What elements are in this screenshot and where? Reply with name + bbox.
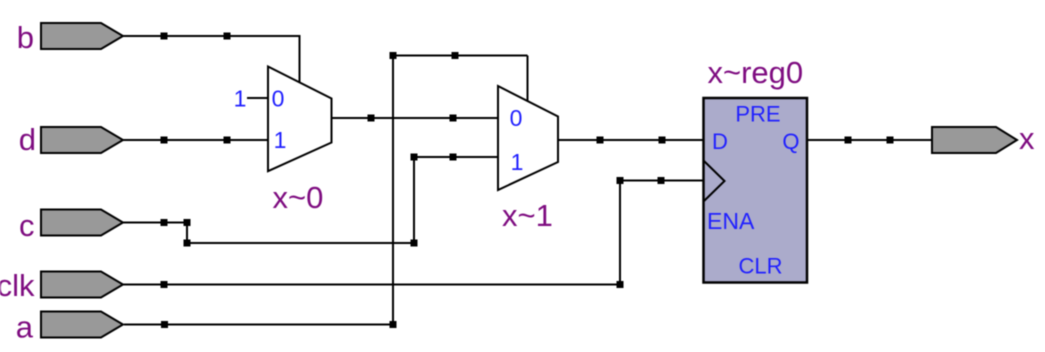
register x~reg0 body (704, 98, 808, 283)
junction on a wire (161, 321, 168, 328)
input pin c (41, 210, 123, 236)
junction on c to mux x~1 (450, 154, 457, 161)
junction c corner up (411, 154, 418, 161)
junction on D wire 2 (659, 137, 666, 144)
svg-text:1: 1 (234, 86, 247, 112)
junction on d wire 2 (224, 137, 231, 144)
wire a vertical up (392, 56, 394, 325)
junction a corner top (390, 52, 397, 59)
svg-text:clk: clk (0, 268, 35, 303)
svg-text:0: 0 (272, 86, 285, 112)
wire a select horizontal (393, 55, 528, 57)
junction c corner top (184, 219, 191, 226)
junction a corner bottom (390, 321, 397, 328)
output pin x (932, 127, 1017, 153)
junction c corner right (411, 240, 418, 247)
junction on b wire 1 (161, 33, 168, 40)
input pin a (41, 312, 123, 338)
mux x~0 body (268, 67, 332, 172)
svg-text:d: d (19, 122, 36, 157)
wire clk vertical up (619, 181, 621, 285)
junction on d wire 1 (161, 137, 168, 144)
junction on a select (452, 52, 459, 59)
wire c to mux x~1 input 1 (414, 156, 498, 158)
wire constant stub to mux x~0 input 0 (247, 97, 268, 99)
svg-text:x~1: x~1 (502, 198, 553, 233)
junction on Q wire 2 (887, 137, 894, 144)
svg-text:x: x (1019, 121, 1035, 156)
svg-text:b: b (17, 20, 34, 55)
svg-text:x~reg0: x~reg0 (708, 55, 804, 90)
svg-text:D: D (712, 129, 728, 154)
svg-text:CLR: CLR (738, 254, 782, 279)
junction on Q wire 1 (845, 137, 852, 144)
junction on c wire (161, 219, 168, 226)
svg-text:1: 1 (511, 149, 524, 175)
junction on clk wire (161, 281, 168, 288)
junction clk corner bottom (617, 281, 624, 288)
wire mux x~1 output to register D (558, 139, 703, 141)
svg-text:ENA: ENA (707, 208, 755, 234)
register clock chevron (704, 161, 725, 201)
wire mux x~0 output to mux x~1 input 0 (332, 117, 499, 119)
junction on clk to register (658, 177, 665, 184)
svg-text:1: 1 (274, 127, 287, 153)
wire c horizontal from pin (123, 222, 187, 224)
junction on mux x~0 output 2 (450, 115, 457, 122)
wire b vertical to mux x~0 select (299, 35, 301, 83)
wire register Q to output pin x (807, 139, 932, 141)
junction on mux x~0 output 1 (368, 115, 375, 122)
wire clk horizontal (123, 284, 620, 286)
junction on D wire 1 (597, 137, 604, 144)
input pin clk (41, 272, 123, 298)
junction clk corner top (617, 177, 624, 184)
wire clk to register clock pin (620, 180, 704, 182)
svg-text:PRE: PRE (735, 102, 780, 127)
wire d horizontal (123, 139, 268, 141)
svg-text:0: 0 (510, 105, 523, 131)
mux x~1 body (498, 86, 558, 190)
wire c vertical jog (186, 223, 188, 244)
junction c corner bottom (184, 240, 191, 247)
junction on b wire 2 (224, 33, 231, 40)
svg-text:a: a (16, 310, 34, 345)
wire c horizontal run (187, 242, 414, 244)
svg-text:x~0: x~0 (273, 180, 324, 215)
wire c vertical up (413, 157, 415, 243)
svg-text:c: c (19, 208, 35, 243)
input pin b (41, 23, 123, 49)
wire a vertical to mux x~1 select (527, 56, 529, 103)
input pin d (41, 127, 123, 153)
wire a horizontal (124, 324, 393, 326)
svg-text:Q: Q (782, 129, 799, 154)
wire b horizontal (123, 35, 300, 37)
